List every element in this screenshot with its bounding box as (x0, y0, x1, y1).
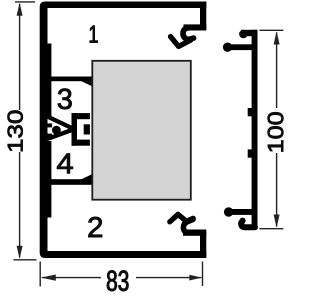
dim 100 top tick (259, 29, 283, 31)
dim 100 arrow down (274, 215, 280, 228)
dim 130 line lower (19, 152, 21, 258)
left wall inner layer lower (47, 141, 51, 218)
bottom-right wall stub (200, 230, 206, 259)
cover top arm (241, 30, 258, 36)
dim 83 text (107, 270, 128, 291)
upper divider barb (81, 81, 91, 86)
cover bottom knob (224, 207, 233, 216)
dim 83 line left (42, 277, 101, 279)
top-right J-curl (183, 28, 194, 40)
hinge nub lower (47, 134, 52, 138)
dim 130 line upper (19, 4, 21, 110)
dim 83 line right (136, 277, 201, 279)
cover top knob arm (228, 44, 253, 50)
lower divider barb (81, 174, 91, 179)
bottom-right tilde clip (170, 214, 193, 221)
dim 130 top tick (15, 1, 35, 3)
cover bottom knob arm (229, 209, 253, 215)
cover bottom curl (241, 221, 255, 228)
screw channel middle tab (84, 124, 90, 134)
dim 130 arrow up (17, 3, 23, 16)
dim 100 line lower (276, 153, 278, 227)
dim 130 text (8, 111, 23, 151)
dim 83 left extension (39, 262, 41, 287)
hinge V strut upper (48, 117, 71, 128)
left wall inner layer upper (47, 44, 51, 117)
dim 130 bottom tick (14, 259, 37, 261)
label 4 (57, 154, 73, 174)
dim 100 bottom tick (259, 228, 283, 230)
dim 130 arrow down (17, 246, 23, 259)
upper divider wall (48, 77, 92, 82)
hinge V strut lower (48, 130, 71, 138)
trunking body outer walls (40, 2, 207, 259)
cover top knob (223, 43, 232, 52)
bottom-right J-curl (183, 219, 193, 232)
label 1 (90, 26, 98, 43)
cover nub lower (248, 149, 252, 157)
dim 83 arrow right (189, 275, 202, 281)
hinge pin circle (52, 126, 61, 135)
dim 100 arrow up (274, 31, 280, 44)
label 2 (89, 217, 102, 237)
label 3 (58, 89, 72, 110)
dim 83 right extension (202, 262, 204, 287)
top-right inner arm (184, 24, 207, 30)
bottom-right inner arm (183, 230, 206, 236)
cover nub upper (248, 108, 252, 116)
cover profile bar (252, 30, 258, 227)
screw channel top arm (72, 113, 90, 119)
mounting plate (gray) (92, 61, 191, 200)
dim 100 text (268, 112, 284, 151)
hinge nub upper (47, 123, 52, 127)
screw channel left bar (72, 113, 78, 146)
dim 100 line upper (276, 33, 278, 109)
dim 83 arrow left (41, 275, 56, 281)
top-right check clip (171, 37, 191, 47)
top-right wall stub (200, 2, 206, 31)
screw channel bottom arm (72, 140, 90, 146)
lower divider wall (48, 179, 92, 185)
cover top arm bulb (239, 30, 248, 39)
